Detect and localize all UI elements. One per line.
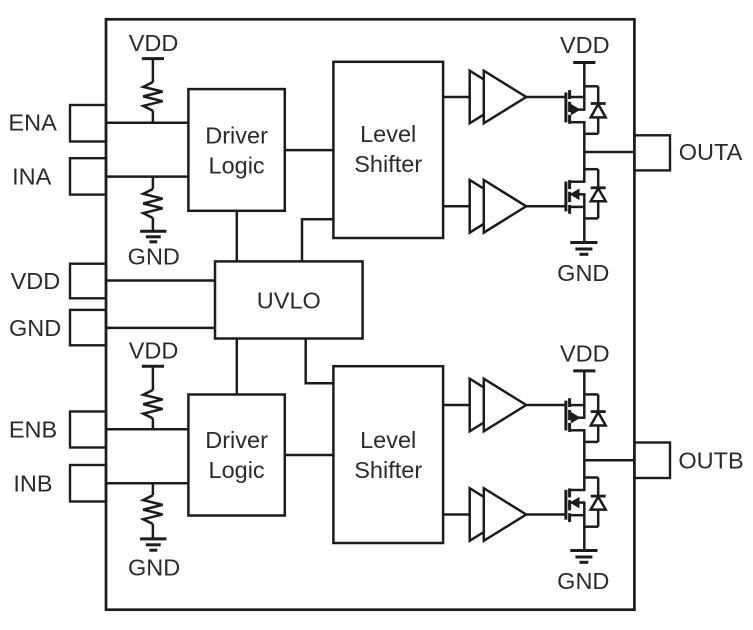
block Level Shifter B — [333, 366, 443, 543]
block Level Shifter A — [333, 62, 443, 238]
svg-text:GND: GND — [128, 554, 180, 580]
resistor pull-down A — [143, 177, 162, 232]
wire VDD rail to high-side FET A — [583, 63, 586, 111]
label INB — [13, 470, 52, 496]
svg-text:Shifter: Shifter — [354, 457, 422, 483]
resistor pull-down B — [143, 483, 162, 539]
wire Level Shifter A to buffer A1 — [443, 96, 470, 99]
block Driver Logic B — [188, 395, 284, 516]
label ENA — [8, 110, 57, 136]
wire buffer A2 to gate of low-side FET — [526, 205, 565, 208]
wire buffer B2 to gate of low-side FET — [526, 513, 565, 516]
block Driver Logic A — [188, 89, 284, 211]
svg-text:Level: Level — [360, 427, 416, 453]
transistor A low-side (N-channel) — [566, 180, 584, 214]
wire ENB to Driver Logic B — [106, 428, 188, 431]
svg-text:GND: GND — [557, 568, 609, 594]
pin GND — [70, 310, 106, 345]
svg-text:GND: GND — [557, 260, 609, 286]
pin ENA — [70, 105, 106, 142]
label VDD — [11, 268, 61, 294]
buffer B2 — [470, 488, 527, 541]
wire Driver Logic B to Level Shifter B — [285, 454, 334, 457]
svg-text:GND: GND — [128, 243, 180, 269]
svg-text:VDD: VDD — [129, 30, 179, 56]
wire output node to OUTB pin — [584, 459, 634, 462]
svg-text:OUTA: OUTA — [679, 139, 743, 165]
ground GND output stage A — [557, 243, 609, 286]
svg-text:Driver: Driver — [205, 123, 268, 149]
svg-text:Shifter: Shifter — [354, 151, 422, 177]
svg-text:ENB: ENB — [9, 417, 57, 443]
svg-text:VDD: VDD — [129, 338, 179, 364]
wire UVLO to Level Shifter B — [306, 339, 334, 384]
wire VDD rail to high-side FET B — [583, 371, 586, 419]
power VDD pull-up B terminal — [129, 338, 179, 367]
wire low-side FET to GND rail B — [583, 501, 586, 550]
svg-text:GND: GND — [9, 315, 61, 341]
buffer A2 — [470, 180, 527, 233]
wire Driver Logic A to UVLO — [236, 211, 239, 262]
ground GND pull-down B — [128, 539, 180, 581]
wire VDD pin to UVLO — [106, 279, 215, 282]
block UVLO — [215, 261, 363, 338]
pin ENB — [70, 412, 106, 448]
pin VDD — [70, 264, 106, 299]
resistor pull-up B — [143, 366, 162, 429]
label OUTA — [679, 139, 743, 165]
wire Level Shifter A to buffer A2 — [443, 205, 470, 208]
pin OUTB — [634, 443, 670, 479]
label INA — [12, 163, 52, 189]
svg-text:Level: Level — [360, 121, 416, 147]
wire high-side source to low-side drain B (output node) — [583, 429, 586, 491]
pin INA — [70, 158, 106, 194]
ground GND pull-down A — [128, 231, 180, 269]
svg-text:OUTB: OUTB — [678, 447, 743, 473]
wire buffer B1 to gate of high-side FET — [526, 404, 565, 407]
transistor B high-side (P-channel) — [566, 398, 584, 432]
wire ENA to Driver Logic A — [106, 121, 188, 124]
svg-text:Logic: Logic — [209, 153, 265, 179]
label OUTB — [678, 447, 743, 473]
svg-text:Logic: Logic — [209, 457, 265, 483]
wire INA to Driver Logic A — [106, 175, 188, 178]
transistor B low-side (N-channel) — [566, 488, 584, 522]
svg-text:VDD: VDD — [560, 341, 610, 367]
wire Level Shifter B to buffer B2 — [443, 513, 470, 516]
svg-text:ENA: ENA — [8, 110, 57, 136]
wire Level Shifter B to buffer B1 — [443, 404, 470, 407]
svg-text:UVLO: UVLO — [257, 288, 321, 314]
power VDD output stage A — [560, 32, 610, 62]
wire GND pin to UVLO — [106, 327, 215, 330]
svg-text:VDD: VDD — [11, 268, 61, 294]
wire UVLO to Driver Logic B — [236, 339, 239, 395]
wire buffer A1 to gate of high-side FET — [526, 96, 565, 99]
wire high-side source to low-side drain A (output node) — [583, 121, 586, 183]
svg-text:VDD: VDD — [560, 32, 610, 58]
wire output node to OUTA pin — [584, 151, 634, 154]
label GND — [9, 315, 61, 341]
svg-text:INB: INB — [13, 470, 52, 496]
pin INB — [70, 465, 106, 502]
resistor pull-up A — [143, 59, 162, 123]
label ENB — [9, 417, 57, 443]
wire Driver Logic A to Level Shifter A — [285, 149, 334, 152]
wire low-side FET to GND rail A — [583, 193, 586, 242]
power VDD output stage B — [560, 341, 610, 371]
wire INB to Driver Logic B — [106, 482, 188, 485]
power VDD pull-up A terminal — [129, 30, 179, 58]
pin OUTA — [634, 135, 670, 170]
buffer B1 — [470, 379, 527, 432]
wire UVLO to Level Shifter A — [302, 219, 333, 261]
buffer A1 — [470, 71, 527, 124]
svg-text:INA: INA — [12, 163, 52, 189]
ground GND output stage B — [557, 551, 609, 594]
svg-text:Driver: Driver — [205, 427, 268, 453]
diode A high-side body diode — [584, 86, 605, 134]
diode B low-side body diode — [584, 478, 605, 527]
transistor A high-side (P-channel) — [566, 90, 584, 124]
diode A low-side body diode — [584, 169, 605, 218]
diode B high-side body diode — [584, 394, 605, 442]
IC boundary outline — [106, 19, 634, 609]
